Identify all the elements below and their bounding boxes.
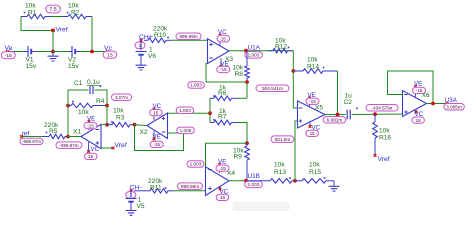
svg-text:-15: -15 bbox=[220, 67, 227, 72]
X4 VC supply pin bbox=[219, 187, 221, 190]
wire: R12 right down to X5 minus node bbox=[292, 51, 294, 71]
resistor R10 bbox=[144, 39, 148, 41]
wire: V1 to center junction bbox=[36, 51, 53, 53]
svg-text:U3A: U3A bbox=[445, 97, 458, 104]
wire: C2 to X6 plus with R16 node bbox=[352, 113, 403, 116]
op-amp X3 bbox=[208, 39, 230, 64]
voltmeter reading 7.5 bbox=[46, 5, 61, 13]
svg-text:Vref: Vref bbox=[378, 156, 390, 163]
resistor R13 bbox=[247, 180, 271, 182]
op-amp X4 bbox=[206, 167, 230, 196]
svg-text:V6: V6 bbox=[148, 53, 156, 60]
svg-text:R1: R1 bbox=[28, 10, 37, 17]
junction R13/R15 bbox=[293, 179, 297, 183]
svg-text:-15: -15 bbox=[87, 123, 94, 128]
node CH+ bbox=[140, 39, 143, 42]
junction X2 output node bbox=[133, 123, 137, 127]
svg-text:U1B: U1B bbox=[248, 173, 260, 180]
resistor R9 bbox=[246, 143, 248, 146]
svg-text:VC: VC bbox=[91, 146, 100, 153]
svg-text:R10: R10 bbox=[154, 32, 166, 39]
X1 VC supply pin bbox=[88, 142, 90, 152]
svg-text:C1: C1 bbox=[74, 80, 83, 87]
reading 504.541m bbox=[256, 85, 289, 92]
svg-text:R3: R3 bbox=[116, 115, 125, 122]
node Vref top bbox=[51, 29, 55, 33]
svg-text:X5: X5 bbox=[315, 105, 323, 112]
X2 feedback loop bbox=[135, 125, 184, 151]
svg-text:10k: 10k bbox=[309, 162, 320, 169]
node U1A bbox=[244, 49, 248, 53]
X6 feedback loop bbox=[388, 71, 434, 104]
wire: X5 output bbox=[325, 114, 346, 116]
X3 feedback loop to minus input bbox=[206, 64, 247, 83]
reading 6.081m bbox=[323, 117, 346, 124]
reading 999.99m at X3 input bbox=[172, 39, 208, 41]
wire: R6 left to X2 top input node bbox=[209, 98, 211, 122]
svg-text:15: 15 bbox=[220, 195, 226, 200]
wire: R4 left up to C1 bbox=[68, 90, 89, 106]
op-amp X5 bbox=[298, 101, 326, 128]
node Vc bbox=[106, 50, 109, 53]
faint watermark box bbox=[233, 203, 289, 211]
source V1 bbox=[27, 46, 29, 57]
svg-text:R5: R5 bbox=[49, 128, 58, 135]
svg-text:7.5: 7.5 bbox=[49, 7, 56, 13]
op-amp X2 (mirrored) bbox=[147, 113, 168, 139]
wire: center to V2 bbox=[53, 51, 68, 53]
svg-text:X2: X2 bbox=[140, 129, 148, 136]
svg-text:1.003: 1.003 bbox=[248, 182, 260, 187]
node CH- bbox=[130, 189, 133, 192]
resistor R8 feedback bbox=[246, 51, 248, 66]
svg-text:U1A: U1A bbox=[248, 45, 261, 52]
svg-text:Ve: Ve bbox=[5, 45, 13, 52]
reading 3.07m bbox=[112, 94, 132, 101]
svg-text:10k: 10k bbox=[113, 108, 124, 115]
resistor R11 bbox=[134, 190, 150, 192]
reading 1.006 bbox=[177, 127, 195, 134]
svg-text:15: 15 bbox=[88, 154, 94, 159]
svg-text:R9: R9 bbox=[234, 153, 243, 160]
svg-text:R4: R4 bbox=[96, 98, 105, 105]
svg-text:Vref: Vref bbox=[115, 142, 127, 149]
source V2 bbox=[71, 46, 73, 57]
node Vref at R16 bbox=[374, 154, 377, 157]
resistor R14 bbox=[293, 70, 303, 72]
wire: X2 top input bbox=[168, 112, 211, 114]
svg-text:R11: R11 bbox=[150, 185, 162, 192]
wire: R4 right down to R3 node bbox=[106, 106, 108, 125]
capacitor C1 bbox=[89, 86, 91, 94]
svg-text:15: 15 bbox=[310, 131, 316, 136]
svg-text:15: 15 bbox=[416, 118, 422, 123]
reading -434.579n bbox=[366, 105, 398, 112]
junction X6 fb/out bbox=[431, 102, 435, 106]
ground R15 bbox=[333, 181, 335, 187]
wire between R1 and R2 bbox=[51, 16, 62, 18]
svg-text:R2: R2 bbox=[71, 10, 80, 17]
wire: X1 input node to apex bbox=[68, 136, 81, 138]
svg-text:15v: 15v bbox=[68, 63, 79, 70]
wire R11 to X4 plus bbox=[174, 190, 206, 192]
svg-text:C2: C2 bbox=[344, 99, 353, 106]
svg-text:-434.579n: -434.579n bbox=[372, 105, 393, 110]
junction R3 left bbox=[105, 123, 109, 127]
op-amp X1 (mirrored) bbox=[81, 124, 101, 148]
svg-text:15: 15 bbox=[107, 53, 113, 59]
X4 VE supply pin bbox=[219, 165, 221, 174]
svg-text:-15: -15 bbox=[416, 88, 423, 93]
svg-text:3.07m: 3.07m bbox=[115, 95, 128, 100]
ground V5 bbox=[126, 211, 137, 216]
svg-text:V5: V5 bbox=[137, 203, 145, 210]
svg-text:1.003: 1.003 bbox=[190, 162, 202, 167]
wire: R12 node down to X5 minus bbox=[293, 71, 297, 108]
svg-text:3.065m: 3.065m bbox=[446, 105, 462, 110]
svg-text:R12: R12 bbox=[275, 44, 287, 51]
svg-text:R6: R6 bbox=[218, 90, 227, 97]
junction X5 out bbox=[336, 113, 340, 117]
svg-text:VE: VE bbox=[414, 81, 422, 88]
svg-text:R14: R14 bbox=[307, 63, 319, 70]
svg-text:R7: R7 bbox=[218, 114, 227, 121]
svg-text:10k: 10k bbox=[25, 3, 36, 10]
X6 VE supply pin bbox=[415, 87, 417, 99]
svg-text:-15: -15 bbox=[153, 142, 160, 147]
node Vref at X1 bbox=[112, 147, 115, 150]
svg-text:501.5m: 501.5m bbox=[275, 137, 291, 142]
wire: Vref down to rail bbox=[52, 31, 54, 52]
svg-text:15v: 15v bbox=[26, 63, 37, 70]
svg-text:1.003: 1.003 bbox=[248, 53, 260, 58]
wire ref to R5 bbox=[22, 136, 44, 138]
junction R4 right bbox=[105, 104, 109, 108]
wire: rail Ve to V1 bbox=[7, 51, 24, 53]
wire: X1 plus input to Vref pin bbox=[101, 147, 113, 149]
source V5 bbox=[130, 191, 132, 197]
svg-text:-15: -15 bbox=[309, 99, 316, 104]
wire: X3 output to U1A and R12 bbox=[229, 50, 293, 52]
reading -999.87m at X1 bbox=[56, 142, 82, 149]
resistor R7 bbox=[210, 122, 214, 124]
reading 999.99m at X4 bbox=[178, 183, 203, 190]
resistor R3 bbox=[107, 124, 112, 126]
svg-text:0.1u: 0.1u bbox=[87, 79, 100, 86]
X2 VE supply pin bbox=[153, 131, 155, 139]
X3 VC supply pin bbox=[219, 35, 221, 46]
svg-text:1.003: 1.003 bbox=[190, 83, 202, 88]
X6 VC supply pin bbox=[415, 110, 417, 113]
capacitor C2 bbox=[346, 110, 348, 120]
wire: to X2 apex bbox=[135, 124, 148, 127]
svg-text:15: 15 bbox=[221, 36, 227, 41]
ground V6 bbox=[136, 65, 147, 70]
resistor R6 bbox=[210, 97, 214, 99]
wire: X4 output to U1B bbox=[229, 180, 247, 182]
svg-text:R16: R16 bbox=[379, 134, 391, 141]
reading 1.003 X3 feedback bbox=[188, 82, 205, 89]
svg-text:Vref: Vref bbox=[56, 27, 68, 34]
svg-text:X1: X1 bbox=[73, 129, 81, 136]
svg-text:10k: 10k bbox=[68, 3, 79, 10]
resistor R15 bbox=[295, 180, 302, 182]
svg-text:1.006: 1.006 bbox=[180, 128, 192, 133]
resistor R4 bbox=[68, 105, 71, 107]
svg-text:999.99m: 999.99m bbox=[181, 184, 199, 189]
X5 VC supply pin bbox=[309, 122, 311, 127]
junction R16 top bbox=[373, 112, 377, 116]
svg-text:504.541m: 504.541m bbox=[262, 86, 283, 91]
X4 feedback wire from R9 top to X4 minus bbox=[206, 143, 248, 167]
X5 VE supply pin bbox=[309, 98, 311, 107]
wire: X6 output to U3A bbox=[427, 103, 448, 105]
X1 VE supply pin bbox=[88, 122, 90, 131]
wire: R14 right down to X5 output bbox=[337, 71, 339, 115]
X2 VC supply pin bbox=[153, 109, 155, 120]
junction X1 input node bbox=[66, 135, 70, 139]
svg-text:-15: -15 bbox=[219, 166, 226, 171]
wire: feedback vertical to R4/C1 bbox=[67, 106, 69, 137]
wire: R1 left lead down to Vref row bbox=[21, 17, 52, 31]
wire: R2 right lead down to rail bbox=[91, 17, 93, 52]
wire: V2 to Vc bbox=[80, 51, 108, 53]
junction R12/R14 node bbox=[291, 69, 295, 73]
source V6 bbox=[140, 40, 142, 50]
resistor R2 bbox=[62, 16, 68, 18]
svg-text:R15: R15 bbox=[309, 169, 321, 176]
reading 501.5m bbox=[271, 136, 294, 143]
svg-text:VE: VE bbox=[153, 133, 161, 140]
svg-text:-999.87m: -999.87m bbox=[59, 143, 78, 148]
svg-text:999.99m: 999.99m bbox=[179, 34, 197, 39]
reading 1.003 X4 feedback bbox=[187, 161, 204, 168]
svg-text:10k: 10k bbox=[274, 162, 285, 169]
svg-text:6.081m: 6.081m bbox=[327, 118, 343, 123]
node U1B bbox=[244, 179, 248, 183]
wire: R7 right to R9 node bbox=[238, 123, 247, 144]
svg-text:VE: VE bbox=[87, 115, 95, 122]
node ref bbox=[20, 135, 23, 138]
node U3A bbox=[446, 102, 449, 105]
resistor R16 bbox=[374, 114, 376, 122]
node X2 top input junction bbox=[208, 111, 212, 115]
wire: feedback node down to R6 bbox=[246, 82, 248, 98]
svg-text:R8: R8 bbox=[235, 71, 244, 78]
svg-text:-15: -15 bbox=[5, 53, 12, 59]
svg-text:10k: 10k bbox=[379, 127, 390, 134]
svg-text:15: 15 bbox=[153, 110, 159, 115]
svg-text:1.003: 1.003 bbox=[179, 108, 191, 113]
junction rail right bbox=[90, 50, 94, 54]
node Ve bbox=[6, 50, 9, 53]
node R9 top bbox=[245, 141, 249, 145]
resistor R12 bbox=[268, 50, 273, 52]
op-amp X6 bbox=[403, 91, 427, 117]
wire: junction up to X5 plus bbox=[295, 121, 298, 181]
resistor R5 bbox=[43, 136, 49, 138]
resistor R1 bbox=[21, 16, 27, 18]
X3 VE supply pin bbox=[220, 58, 222, 66]
wire: R3 node to X1 minus corner bbox=[101, 124, 107, 126]
reading 1.003 X2 out bbox=[176, 107, 194, 114]
svg-text:-999.87m: -999.87m bbox=[22, 139, 41, 144]
junction center rail bbox=[51, 50, 55, 54]
junction R4 left bbox=[66, 104, 70, 108]
ground main bbox=[52, 52, 54, 57]
svg-text:R13: R13 bbox=[274, 169, 286, 176]
svg-text:VC: VC bbox=[153, 103, 162, 110]
